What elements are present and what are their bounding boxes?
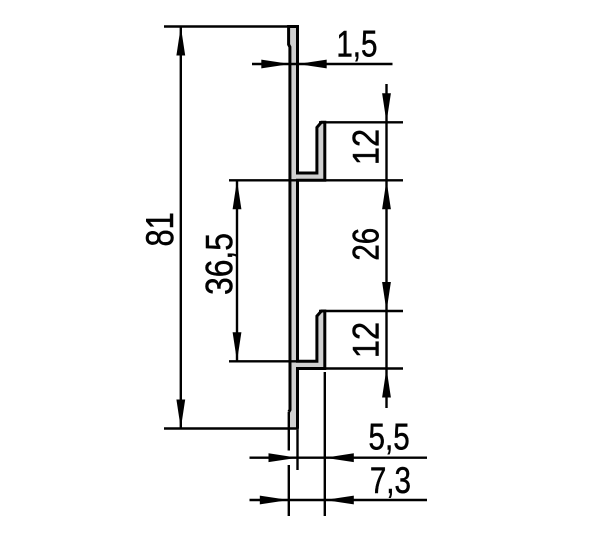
svg-text:36,5: 36,5 <box>198 233 240 295</box>
svg-text:81: 81 <box>139 212 182 246</box>
svg-text:26: 26 <box>346 228 387 261</box>
svg-text:5,5: 5,5 <box>369 417 410 458</box>
svg-text:12: 12 <box>346 322 387 358</box>
svg-text:1,5: 1,5 <box>336 24 377 65</box>
svg-text:7,3: 7,3 <box>370 461 411 502</box>
svg-text:12: 12 <box>346 129 387 165</box>
